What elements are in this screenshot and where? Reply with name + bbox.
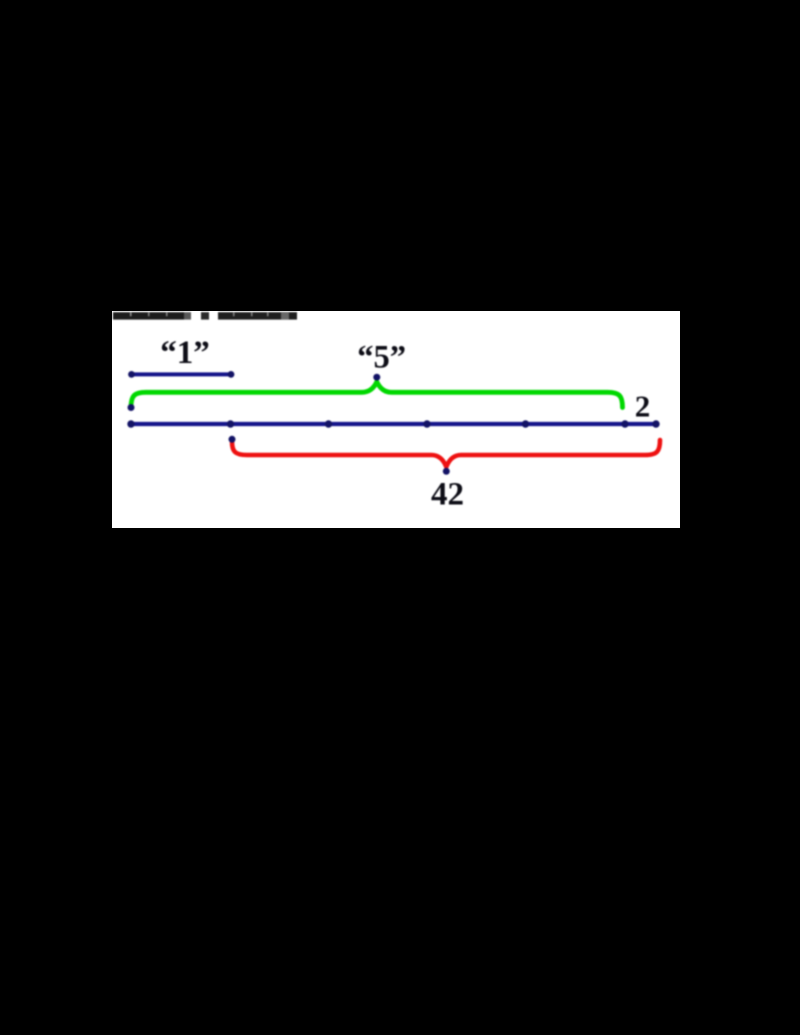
green brace left end dot bbox=[128, 404, 135, 411]
white panel bbox=[112, 311, 680, 528]
svg-text:2: 2 bbox=[635, 389, 651, 424]
tick dot 0 bbox=[127, 420, 134, 427]
tick dot 1 bbox=[227, 420, 234, 427]
svg-text:“5”: “5” bbox=[357, 340, 406, 376]
red brace left end dot bbox=[229, 436, 236, 443]
tick dot end bbox=[652, 420, 659, 427]
green brace (span of 5 units) bbox=[131, 382, 623, 408]
unit segment right dot bbox=[228, 371, 235, 378]
main number line bbox=[131, 422, 656, 426]
red brace tip dot bbox=[443, 468, 450, 475]
tick dot 2 bbox=[325, 420, 332, 427]
unit segment (top) bbox=[132, 372, 232, 376]
clipped text strip at top of panel bbox=[113, 312, 297, 319]
svg-text:42: 42 bbox=[431, 477, 464, 513]
svg-text:“1”: “1” bbox=[160, 335, 210, 371]
tick dot 4 bbox=[522, 420, 529, 427]
green brace tip dot bbox=[373, 374, 380, 381]
tick dot 3 bbox=[423, 420, 430, 427]
unit segment left dot bbox=[128, 371, 135, 378]
red brace (span 42) bbox=[232, 440, 660, 467]
tick dot 5 bbox=[621, 420, 628, 427]
